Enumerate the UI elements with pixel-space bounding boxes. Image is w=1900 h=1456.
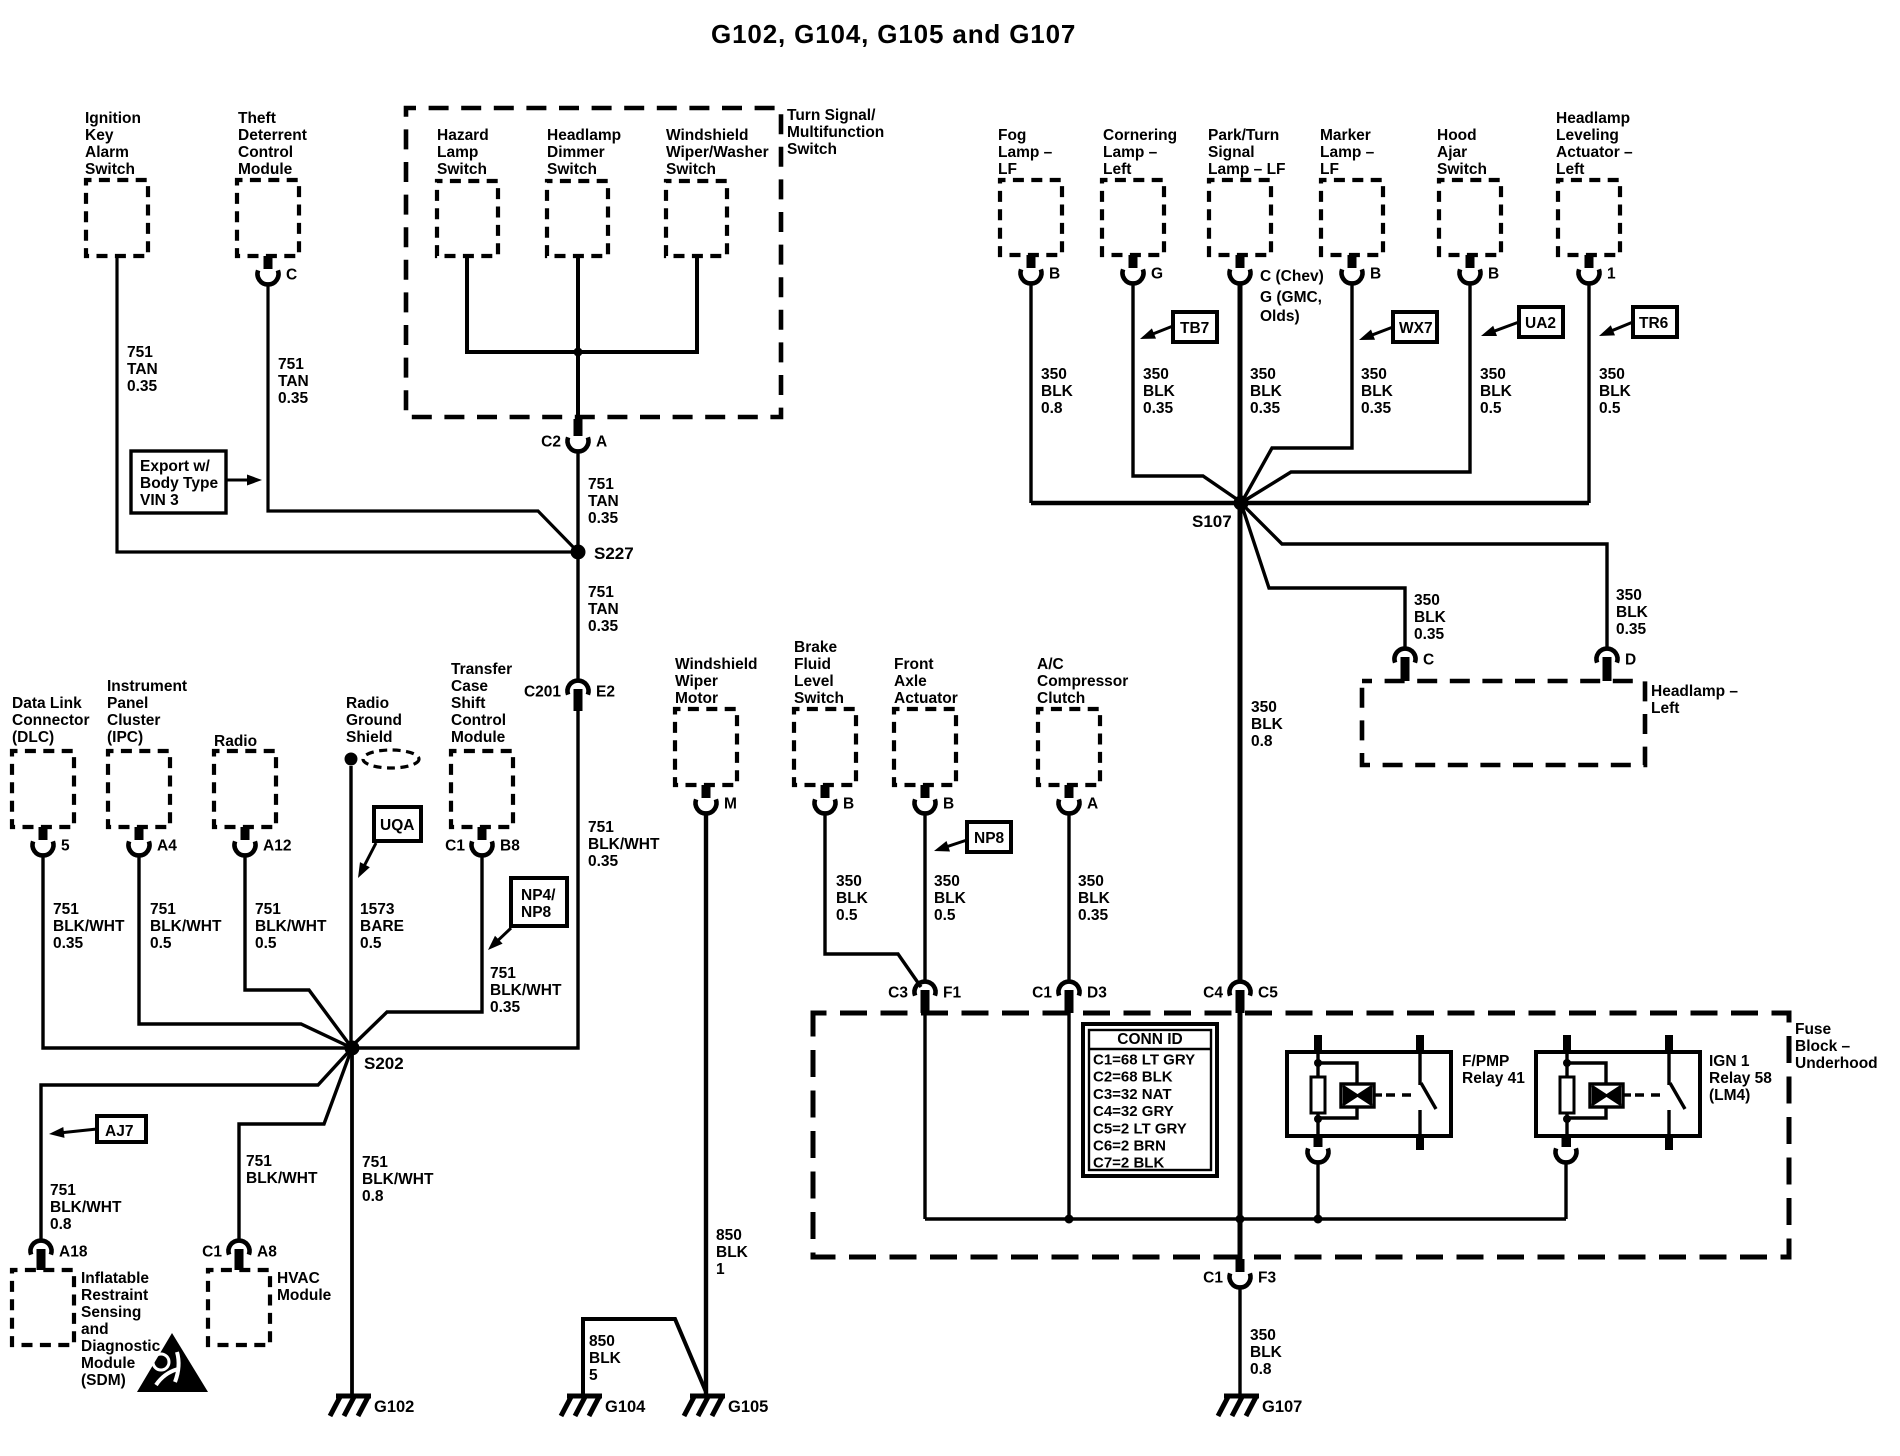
svg-text:Turn Signal/: Turn Signal/ [787,107,876,124]
svg-text:Control: Control [451,712,506,729]
svg-text:Transfer: Transfer [451,661,512,678]
svg-text:C7=2 BLK: C7=2 BLK [1093,1155,1164,1172]
svg-text:NP4/: NP4/ [521,887,556,904]
svg-text:TAN: TAN [588,601,619,618]
svg-text:Relay 41: Relay 41 [1462,1070,1525,1087]
svg-text:Front: Front [894,656,934,673]
svg-text:350: 350 [1250,1327,1276,1344]
svg-text:Left: Left [1651,700,1679,717]
svg-text:Axle: Axle [894,673,927,690]
svg-text:Switch: Switch [1437,161,1487,178]
svg-text:B8: B8 [500,838,520,855]
svg-text:C1=68 LT GRY: C1=68 LT GRY [1093,1052,1195,1069]
svg-text:C (Chev): C (Chev) [1260,268,1324,285]
svg-text:BLK: BLK [1250,1344,1283,1361]
svg-text:751: 751 [278,356,304,373]
svg-text:0.35: 0.35 [127,378,158,395]
svg-text:751: 751 [255,901,281,918]
svg-text:Park/Turn: Park/Turn [1208,127,1279,144]
svg-text:S227: S227 [594,544,634,563]
svg-text:Instrument: Instrument [107,678,187,695]
svg-text:B: B [1488,266,1499,283]
svg-text:751: 751 [588,819,614,836]
svg-text:B: B [1370,266,1381,283]
svg-text:0.35: 0.35 [588,510,619,527]
svg-text:BLK: BLK [1041,383,1074,400]
svg-text:Control: Control [238,144,293,161]
svg-text:350: 350 [1078,873,1104,890]
svg-text:HVAC: HVAC [277,1270,320,1287]
svg-text:C2: C2 [541,434,561,451]
svg-text:751: 751 [490,965,516,982]
svg-text:Module: Module [451,729,506,746]
svg-text:Switch: Switch [666,161,716,178]
svg-text:0.5: 0.5 [150,935,172,952]
svg-text:BLK: BLK [1414,609,1447,626]
svg-text:Ignition: Ignition [85,110,141,127]
svg-text:Connector: Connector [12,712,90,729]
svg-text:Wiper: Wiper [675,673,718,690]
svg-text:BLK: BLK [1599,383,1632,400]
svg-text:C3: C3 [888,985,908,1002]
svg-text:TAN: TAN [588,493,619,510]
svg-text:Switch: Switch [547,161,597,178]
svg-text:Cornering: Cornering [1103,127,1177,144]
svg-text:BLK/WHT: BLK/WHT [255,918,327,935]
svg-text:(SDM): (SDM) [81,1372,126,1389]
svg-text:D: D [1625,652,1636,669]
svg-text:C1: C1 [445,838,465,855]
svg-text:BLK: BLK [1480,383,1513,400]
svg-text:Switch: Switch [85,161,135,178]
svg-text:Actuator: Actuator [894,690,958,707]
svg-text:B: B [843,796,854,813]
svg-text:350: 350 [1041,366,1067,383]
svg-text:BLK/WHT: BLK/WHT [490,982,562,999]
svg-text:Fuse: Fuse [1795,1021,1832,1038]
svg-text:Radio: Radio [346,695,389,712]
svg-text:Fog: Fog [998,127,1026,144]
svg-text:Lamp –: Lamp – [1103,144,1158,161]
svg-text:C3=32 NAT: C3=32 NAT [1093,1086,1172,1103]
svg-text:0.35: 0.35 [1078,907,1109,924]
svg-text:751: 751 [50,1182,76,1199]
svg-text:BLK/WHT: BLK/WHT [362,1171,434,1188]
svg-text:850: 850 [716,1227,742,1244]
svg-text:350: 350 [934,873,960,890]
svg-text:Deterrent: Deterrent [238,127,307,144]
svg-text:and: and [81,1321,109,1338]
svg-text:0.35: 0.35 [1143,400,1174,417]
svg-text:0.5: 0.5 [360,935,382,952]
svg-text:A12: A12 [263,838,291,855]
svg-text:0.5: 0.5 [255,935,277,952]
svg-text:BLK: BLK [1078,890,1111,907]
svg-text:C1: C1 [1203,1270,1223,1287]
svg-text:Theft: Theft [238,110,276,127]
svg-text:BLK/WHT: BLK/WHT [53,918,125,935]
svg-text:Alarm: Alarm [85,144,129,161]
svg-text:Headlamp –: Headlamp – [1651,683,1738,700]
svg-text:Inflatable: Inflatable [81,1270,149,1287]
svg-text:BLK/WHT: BLK/WHT [246,1170,318,1187]
svg-text:D3: D3 [1087,985,1107,1002]
svg-text:LF: LF [1320,161,1339,178]
svg-text:TR6: TR6 [1639,315,1669,332]
svg-text:Export w/: Export w/ [140,458,210,475]
svg-text:Lamp: Lamp [437,144,478,161]
svg-text:C5: C5 [1258,985,1278,1002]
svg-text:Headlamp: Headlamp [547,127,621,144]
svg-text:350: 350 [1616,587,1642,604]
svg-text:Ground: Ground [346,712,402,729]
svg-text:350: 350 [1414,592,1440,609]
svg-text:751: 751 [53,901,79,918]
svg-text:Actuator –: Actuator – [1556,144,1633,161]
svg-text:350: 350 [1143,366,1169,383]
svg-text:C1: C1 [1032,985,1052,1002]
svg-text:C4: C4 [1203,985,1223,1002]
svg-text:Windshield: Windshield [666,127,749,144]
svg-text:Hazard: Hazard [437,127,489,144]
svg-text:BLK/WHT: BLK/WHT [150,918,222,935]
svg-text:(DLC): (DLC) [12,729,54,746]
svg-text:751: 751 [362,1154,388,1171]
svg-text:Dimmer: Dimmer [547,144,605,161]
svg-text:Lamp –: Lamp – [1320,144,1375,161]
svg-text:A: A [1087,796,1098,813]
svg-text:Left: Left [1556,161,1584,178]
svg-text:Panel: Panel [107,695,148,712]
svg-text:BLK: BLK [934,890,967,907]
svg-text:E2: E2 [596,684,615,701]
svg-text:0.35: 0.35 [588,853,619,870]
svg-text:Module: Module [81,1355,136,1372]
svg-text:Leveling: Leveling [1556,127,1619,144]
svg-text:(IPC): (IPC) [107,729,143,746]
svg-text:A8: A8 [257,1244,277,1261]
svg-text:BLK: BLK [1361,383,1394,400]
svg-text:NP8: NP8 [521,904,552,921]
svg-text:0.5: 0.5 [836,907,858,924]
svg-text:LF: LF [998,161,1017,178]
svg-text:0.35: 0.35 [53,935,84,952]
svg-text:F3: F3 [1258,1270,1276,1287]
svg-text:0.35: 0.35 [1414,626,1445,643]
svg-text:C6=2 BRN: C6=2 BRN [1093,1138,1166,1155]
svg-text:0.5: 0.5 [1599,400,1621,417]
svg-text:G102, G104, G105 and G107: G102, G104, G105 and G107 [711,19,1076,49]
svg-text:0.35: 0.35 [490,999,521,1016]
svg-text:BLK: BLK [716,1244,749,1261]
svg-text:0.8: 0.8 [50,1216,72,1233]
svg-text:C4=32 GRY: C4=32 GRY [1093,1103,1174,1120]
svg-text:TAN: TAN [127,361,158,378]
svg-text:0.8: 0.8 [1251,733,1273,750]
svg-text:751: 751 [127,344,153,361]
svg-text:BLK/WHT: BLK/WHT [588,836,660,853]
svg-text:0.5: 0.5 [1480,400,1502,417]
svg-text:Cluster: Cluster [107,712,160,729]
svg-text:0.8: 0.8 [362,1188,384,1205]
svg-text:Relay 58: Relay 58 [1709,1070,1772,1087]
svg-text:Restraint: Restraint [81,1287,148,1304]
svg-text:Module: Module [238,161,293,178]
svg-text:850: 850 [589,1333,615,1350]
svg-text:Block –: Block – [1795,1038,1851,1055]
svg-text:Fluid: Fluid [794,656,831,673]
svg-text:350: 350 [1361,366,1387,383]
svg-text:751: 751 [588,476,614,493]
svg-text:0.35: 0.35 [1361,400,1392,417]
svg-text:G (GMC,: G (GMC, [1260,289,1322,306]
svg-text:BLK: BLK [589,1350,622,1367]
svg-text:Switch: Switch [787,141,837,158]
svg-text:C: C [1423,652,1434,669]
svg-text:BARE: BARE [360,918,404,935]
svg-text:A4: A4 [157,838,177,855]
svg-text:5: 5 [61,838,70,855]
svg-text:Marker: Marker [1320,127,1371,144]
svg-text:Ajar: Ajar [1437,144,1467,161]
svg-text:UQA: UQA [380,817,414,834]
svg-text:TAN: TAN [278,373,309,390]
svg-text:G102: G102 [374,1398,414,1416]
svg-text:Underhood: Underhood [1795,1055,1878,1072]
svg-text:Switch: Switch [794,690,844,707]
svg-text:C1: C1 [202,1244,222,1261]
svg-text:S107: S107 [1192,512,1232,531]
svg-text:Lamp –: Lamp – [998,144,1053,161]
svg-text:B: B [943,796,954,813]
svg-text:M: M [724,796,737,813]
svg-text:F1: F1 [943,985,961,1002]
svg-text:350: 350 [1250,366,1276,383]
svg-text:0.35: 0.35 [1250,400,1281,417]
svg-text:G105: G105 [728,1398,768,1416]
svg-text:BLK: BLK [1143,383,1176,400]
svg-text:0.35: 0.35 [1616,621,1647,638]
svg-text:CONN ID: CONN ID [1117,1031,1182,1048]
svg-text:0.5: 0.5 [934,907,956,924]
svg-text:1: 1 [716,1261,725,1278]
svg-text:A18: A18 [59,1244,88,1261]
svg-text:A/C: A/C [1037,656,1064,673]
svg-text:350: 350 [1599,366,1625,383]
svg-text:C: C [286,267,297,284]
svg-text:Module: Module [277,1287,332,1304]
svg-text:C5=2 LT GRY: C5=2 LT GRY [1093,1120,1187,1137]
svg-text:5: 5 [589,1367,598,1384]
svg-text:350: 350 [836,873,862,890]
svg-text:G: G [1151,266,1163,283]
svg-text:TB7: TB7 [1180,320,1209,337]
svg-text:BLK: BLK [1250,383,1283,400]
svg-text:350: 350 [1480,366,1506,383]
svg-text:0.8: 0.8 [1041,400,1063,417]
svg-text:Compressor: Compressor [1037,673,1128,690]
svg-text:Signal: Signal [1208,144,1255,161]
svg-text:NP8: NP8 [974,830,1005,847]
svg-text:0.8: 0.8 [1250,1361,1272,1378]
svg-text:Headlamp: Headlamp [1556,110,1630,127]
svg-text:Windshield: Windshield [675,656,758,673]
svg-text:BLK: BLK [1251,716,1284,733]
svg-text:350: 350 [1251,699,1277,716]
svg-text:Level: Level [794,673,834,690]
svg-text:Sensing: Sensing [81,1304,141,1321]
svg-text:Brake: Brake [794,639,837,656]
svg-text:UA2: UA2 [1525,315,1556,332]
svg-text:AJ7: AJ7 [105,1123,133,1140]
svg-text:B: B [1049,266,1060,283]
svg-text:Data Link: Data Link [12,695,82,712]
svg-text:Olds): Olds) [1260,308,1300,325]
svg-text:751: 751 [150,901,176,918]
svg-text:1573: 1573 [360,901,395,918]
svg-text:Key: Key [85,127,114,144]
svg-text:Wiper/Washer: Wiper/Washer [666,144,769,161]
svg-text:Motor: Motor [675,690,718,707]
svg-text:Radio: Radio [214,733,257,750]
svg-text:BLK: BLK [836,890,869,907]
svg-text:1: 1 [1607,266,1616,283]
svg-text:C2=68 BLK: C2=68 BLK [1093,1069,1173,1086]
svg-text:Switch: Switch [437,161,487,178]
svg-text:IGN 1: IGN 1 [1709,1053,1750,1070]
svg-text:(LM4): (LM4) [1709,1087,1750,1104]
svg-text:G107: G107 [1262,1398,1302,1416]
svg-text:Case: Case [451,678,488,695]
svg-text:S202: S202 [364,1054,404,1073]
svg-text:WX7: WX7 [1399,320,1433,337]
svg-text:Shift: Shift [451,695,485,712]
svg-text:Left: Left [1103,161,1131,178]
svg-text:Diagnostic: Diagnostic [81,1338,161,1355]
svg-text:Multifunction: Multifunction [787,124,884,141]
svg-text:0.35: 0.35 [588,618,619,635]
svg-text:Hood: Hood [1437,127,1477,144]
svg-text:F/PMP: F/PMP [1462,1053,1509,1070]
svg-text:751: 751 [588,584,614,601]
svg-text:C201: C201 [524,684,561,701]
svg-text:0.35: 0.35 [278,390,309,407]
svg-text:Shield: Shield [346,729,393,746]
svg-text:Lamp – LF: Lamp – LF [1208,161,1286,178]
svg-text:BLK: BLK [1616,604,1649,621]
svg-text:VIN 3: VIN 3 [140,492,179,509]
svg-text:BLK/WHT: BLK/WHT [50,1199,122,1216]
svg-text:Clutch: Clutch [1037,690,1085,707]
svg-text:A: A [596,434,607,451]
svg-text:Body Type: Body Type [140,475,218,492]
svg-text:751: 751 [246,1153,272,1170]
svg-text:G104: G104 [605,1398,646,1416]
